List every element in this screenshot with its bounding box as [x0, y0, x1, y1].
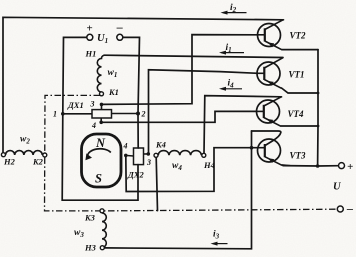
coil w3 [102, 213, 106, 247]
junction node DX1 pin3 [100, 103, 104, 107]
junction VT3 base / collector crossing [250, 146, 254, 150]
junction node DX1 pin1 [61, 112, 65, 116]
junction node DX2 pin3 [147, 152, 151, 156]
svg-text:K3: K3 [84, 213, 96, 223]
wire: top bus from H2 up left side and across top to VT2 collector (carries i2) [3, 17, 284, 152]
junction emitter rail at U plus [316, 164, 320, 168]
junction node DX2 pin4 [124, 154, 128, 158]
terminal K4 [154, 153, 158, 157]
terminal U1 minus [117, 34, 123, 40]
svg-text:2: 2 [141, 110, 146, 119]
wire: VT3 emitter to U plus line [282, 164, 290, 167]
terminal H2 [1, 153, 5, 157]
DX1 pin 1 wire [63, 113, 92, 115]
svg-text:S: S [95, 172, 102, 186]
DX1 pin 4 stub [100, 118, 102, 122]
svg-text:H2: H2 [3, 157, 16, 167]
terminal U1 plus [87, 34, 93, 40]
transistor VT3 [258, 139, 283, 165]
DX1 pin 2 wire [112, 113, 139, 115]
hall sensor DX2 [134, 148, 144, 165]
current arrow i1 [219, 51, 244, 55]
junction VT1 emitter on rail [317, 92, 320, 95]
svg-text:K2: K2 [32, 157, 44, 167]
svg-text:–: – [116, 20, 123, 34]
svg-text:VT1: VT1 [289, 70, 305, 80]
wire: H3 to VT3 collector vertical riser (carries i3) [105, 131, 252, 249]
terminal U plus [339, 163, 345, 169]
svg-text:4: 4 [123, 142, 128, 151]
svg-text:4: 4 [91, 121, 96, 130]
svg-text:3: 3 [90, 100, 95, 109]
minus bus: dash-dot common return (K1,K2,K3,K4 to U minus) [45, 95, 338, 210]
wire: VT1 emitter to rail [282, 88, 319, 93]
terminal K1 [100, 92, 104, 96]
svg-text:VT3: VT3 [290, 151, 307, 161]
wire: H1 to VT1 collector (carries i1) [104, 55, 283, 57]
terminal U minus [337, 206, 343, 212]
terminal K2 [43, 153, 47, 157]
current arrow i2 [221, 11, 247, 15]
svg-text:1: 1 [53, 110, 57, 119]
svg-text:3: 3 [146, 158, 151, 167]
svg-text:+: + [347, 161, 353, 173]
svg-text:ДХ1: ДХ1 [67, 100, 84, 110]
current arrow i4 [219, 87, 242, 91]
junction node 2 (DX1 pin2 to U1 minus) [136, 112, 140, 116]
svg-text:+: + [86, 23, 92, 35]
motor rotor (N-S barrel) [82, 134, 122, 187]
wire: DX2 pin4 to VT3 base [126, 148, 258, 192]
svg-text:VT2: VT2 [290, 31, 307, 41]
wire: U1 minus terminal down to DX1 pin2 node and DX2 top pin [123, 37, 140, 148]
transistor VT4 [257, 97, 282, 127]
wire: U1 plus terminal to DX1 pin1 and DX2 bottom pin [62, 37, 138, 200]
terminal H4 [202, 153, 206, 157]
wire: DX1 pin4 to VT4 base [101, 111, 256, 122]
svg-text:N: N [95, 136, 106, 150]
svg-text:K4: K4 [155, 140, 166, 150]
terminal K3 [100, 209, 104, 213]
wire: emitter rail to U plus terminal [283, 50, 318, 166]
wire: VT2 emitter to rail [282, 49, 318, 51]
transistor VT1 [257, 58, 283, 89]
svg-text:H4: H4 [203, 160, 215, 170]
transistor VT2 [258, 20, 284, 50]
junction VT4 emitter on rail [317, 125, 320, 128]
coil w1 [97, 55, 104, 92]
coil w2 [6, 151, 43, 155]
svg-text:K1: K1 [108, 87, 119, 97]
svg-text:–: – [346, 202, 353, 216]
svg-text:H3: H3 [84, 243, 97, 253]
DX1 pin 3 stub [101, 104, 103, 109]
svg-text:H1: H1 [85, 49, 97, 59]
current arrow i3 [211, 242, 228, 246]
DX2 pin 4 stub [126, 154, 134, 157]
wire: VT4 emitter to rail [281, 125, 318, 127]
DX2 pin 3 stub [144, 153, 149, 155]
wire: VT4 collector to H4 (carries i4) [204, 96, 282, 154]
coil w4 [158, 151, 201, 156]
svg-text:ДХ2: ДХ2 [127, 170, 144, 180]
wire: DX2 pin3 to VT1 base [149, 70, 258, 154]
hall sensor DX1 [92, 110, 112, 118]
terminal H3 [100, 246, 104, 250]
wire: K4 descent to minus bus [156, 157, 157, 210]
wire: VT3 collector loop [252, 131, 281, 146]
junction node DX1 pin4 [99, 121, 103, 125]
wire: DX1 pin3 to VT2 base [102, 35, 258, 105]
svg-text:VT4: VT4 [288, 109, 305, 119]
rotor rotation arrow [88, 149, 111, 156]
